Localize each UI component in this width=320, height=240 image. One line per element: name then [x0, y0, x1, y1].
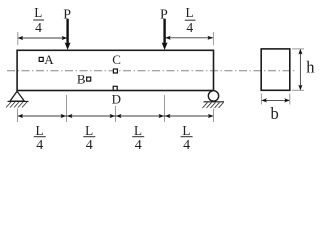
- bottom extension line at right support: [213, 109, 215, 123]
- top-right dimension line L/4: [165, 36, 213, 40]
- svg-text:P: P: [160, 8, 168, 23]
- bottom L/4 label 2: [83, 123, 95, 153]
- svg-text:D: D: [112, 91, 121, 106]
- top-left L/4 fraction label: [33, 5, 44, 35]
- svg-text:4: 4: [183, 138, 190, 153]
- bottom dimension line: [18, 115, 213, 117]
- svg-text:L: L: [185, 5, 193, 20]
- bottom extension line at third quarter: [164, 95, 166, 122]
- svg-text:C: C: [112, 52, 121, 67]
- svg-text:4: 4: [86, 138, 93, 153]
- top-right dimension extension line: [212, 32, 214, 45]
- cross-section h dimension line: [298, 49, 302, 90]
- point D marker: [113, 86, 117, 90]
- pin support (left): [8, 91, 29, 101]
- load P1 arrow: [65, 19, 71, 50]
- point A marker: [39, 57, 43, 61]
- svg-text:L: L: [35, 123, 43, 138]
- bottom L/4 label 1: [34, 123, 46, 153]
- point C marker: [113, 69, 117, 73]
- bottom L/4 label 4: [181, 123, 193, 153]
- top-right L/4 fraction label: [185, 5, 196, 35]
- svg-text:b: b: [270, 104, 278, 123]
- pin support hatching: [6, 102, 27, 108]
- svg-text:B: B: [77, 72, 86, 87]
- point B marker: [87, 77, 91, 81]
- roller support (right): [208, 91, 218, 101]
- load P2 arrow: [162, 19, 168, 50]
- svg-text:4: 4: [35, 20, 42, 35]
- bottom extension line at left support: [17, 109, 19, 123]
- svg-text:h: h: [306, 58, 315, 77]
- svg-text:P: P: [63, 8, 71, 23]
- top-left dimension extension line: [17, 32, 19, 45]
- cross-section rectangle: [261, 49, 290, 90]
- svg-text:L: L: [182, 123, 190, 138]
- svg-text:4: 4: [36, 138, 43, 153]
- svg-text:L: L: [85, 123, 93, 138]
- bottom L/4 label 3: [132, 123, 144, 153]
- centerline (beam neutral axis, dash-dot): [7, 70, 296, 72]
- cross-section b dimension extension lines: [260, 94, 262, 105]
- top-left dimension line L/4: [18, 36, 68, 40]
- roller ground line: [204, 101, 225, 103]
- beam outline: [17, 50, 213, 90]
- svg-text:4: 4: [135, 138, 142, 153]
- bottom dimension arrowheads: [18, 114, 214, 118]
- cross-section b dimension line: [261, 98, 289, 102]
- svg-text:L: L: [134, 123, 142, 138]
- svg-text:4: 4: [186, 20, 193, 35]
- bottom extension line at midspan: [115, 106, 117, 122]
- bottom extension line at first quarter: [66, 95, 68, 122]
- svg-text:L: L: [34, 5, 42, 20]
- roller hatching: [203, 102, 224, 108]
- svg-text:A: A: [44, 52, 54, 67]
- cross-section h dimension extension ticks: [292, 48, 304, 50]
